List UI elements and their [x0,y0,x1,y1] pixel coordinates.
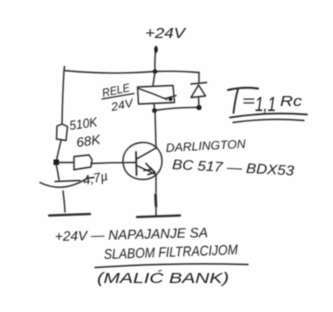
diode D1 triangle [191,85,206,98]
capacitor C1 curved plate [40,178,94,188]
underline RELE [102,94,134,100]
ground right [137,216,180,218]
transistor Q1 collector stroke [137,148,158,160]
wire node A to resistor R2 [58,162,73,164]
emitter wire ink blob [154,195,157,206]
node dot at diode bottom [196,105,201,110]
formula T stem [234,89,239,113]
resistor R1 510K body [57,124,68,141]
formula T top bar [228,88,258,90]
wire node A down to capacitor [56,164,59,180]
ground left [49,214,90,216]
bottom wire node B to diode [155,107,200,110]
svg-text:1,1: 1,1 [255,94,276,116]
wire capacitor to ground [63,191,65,212]
relay K1 box [138,86,175,105]
top rail wire [64,71,199,74]
node A junction dot [54,160,60,166]
svg-text:+24V: +24V [145,25,187,42]
wire +24V down to rail [155,47,156,71]
wire resistor to node A [56,141,61,163]
formula underline 1 [230,114,307,118]
collector wire [155,111,156,148]
diode D1 bottom wire [198,97,201,108]
transistor Q1 circle [123,142,162,179]
wire relay bottom stub [153,104,156,111]
wire rail corner down left side to resistor [62,67,65,125]
formula underline 2 [233,119,304,122]
svg-text:Rc: Rc [280,93,303,110]
wire rail to relay top [153,72,155,86]
node junction dot on rail [153,69,158,74]
resistor R2 68K body [74,155,92,170]
base wire to transistor [91,163,136,164]
caption underline [95,264,248,268]
node B junction dot [152,108,157,113]
transistor Q1 emitter arrow chevrons [144,164,152,171]
diode D1 top wire [198,73,200,83]
transistor Q1 base bar [135,152,138,175]
capacitor C1 top plate [55,181,80,182]
diode D1 cathode bar [191,83,207,85]
transistor Q1 emitter stroke [137,166,157,175]
node dot at +24V wire top [154,46,158,53]
svg-text:(MALIĆ BANK): (MALIĆ BANK) [97,270,229,287]
emitter wire [155,176,157,216]
svg-text:=: = [242,93,255,110]
relay K1 diagonal tick [165,96,176,99]
relay K1 coil diagonal [139,89,168,100]
